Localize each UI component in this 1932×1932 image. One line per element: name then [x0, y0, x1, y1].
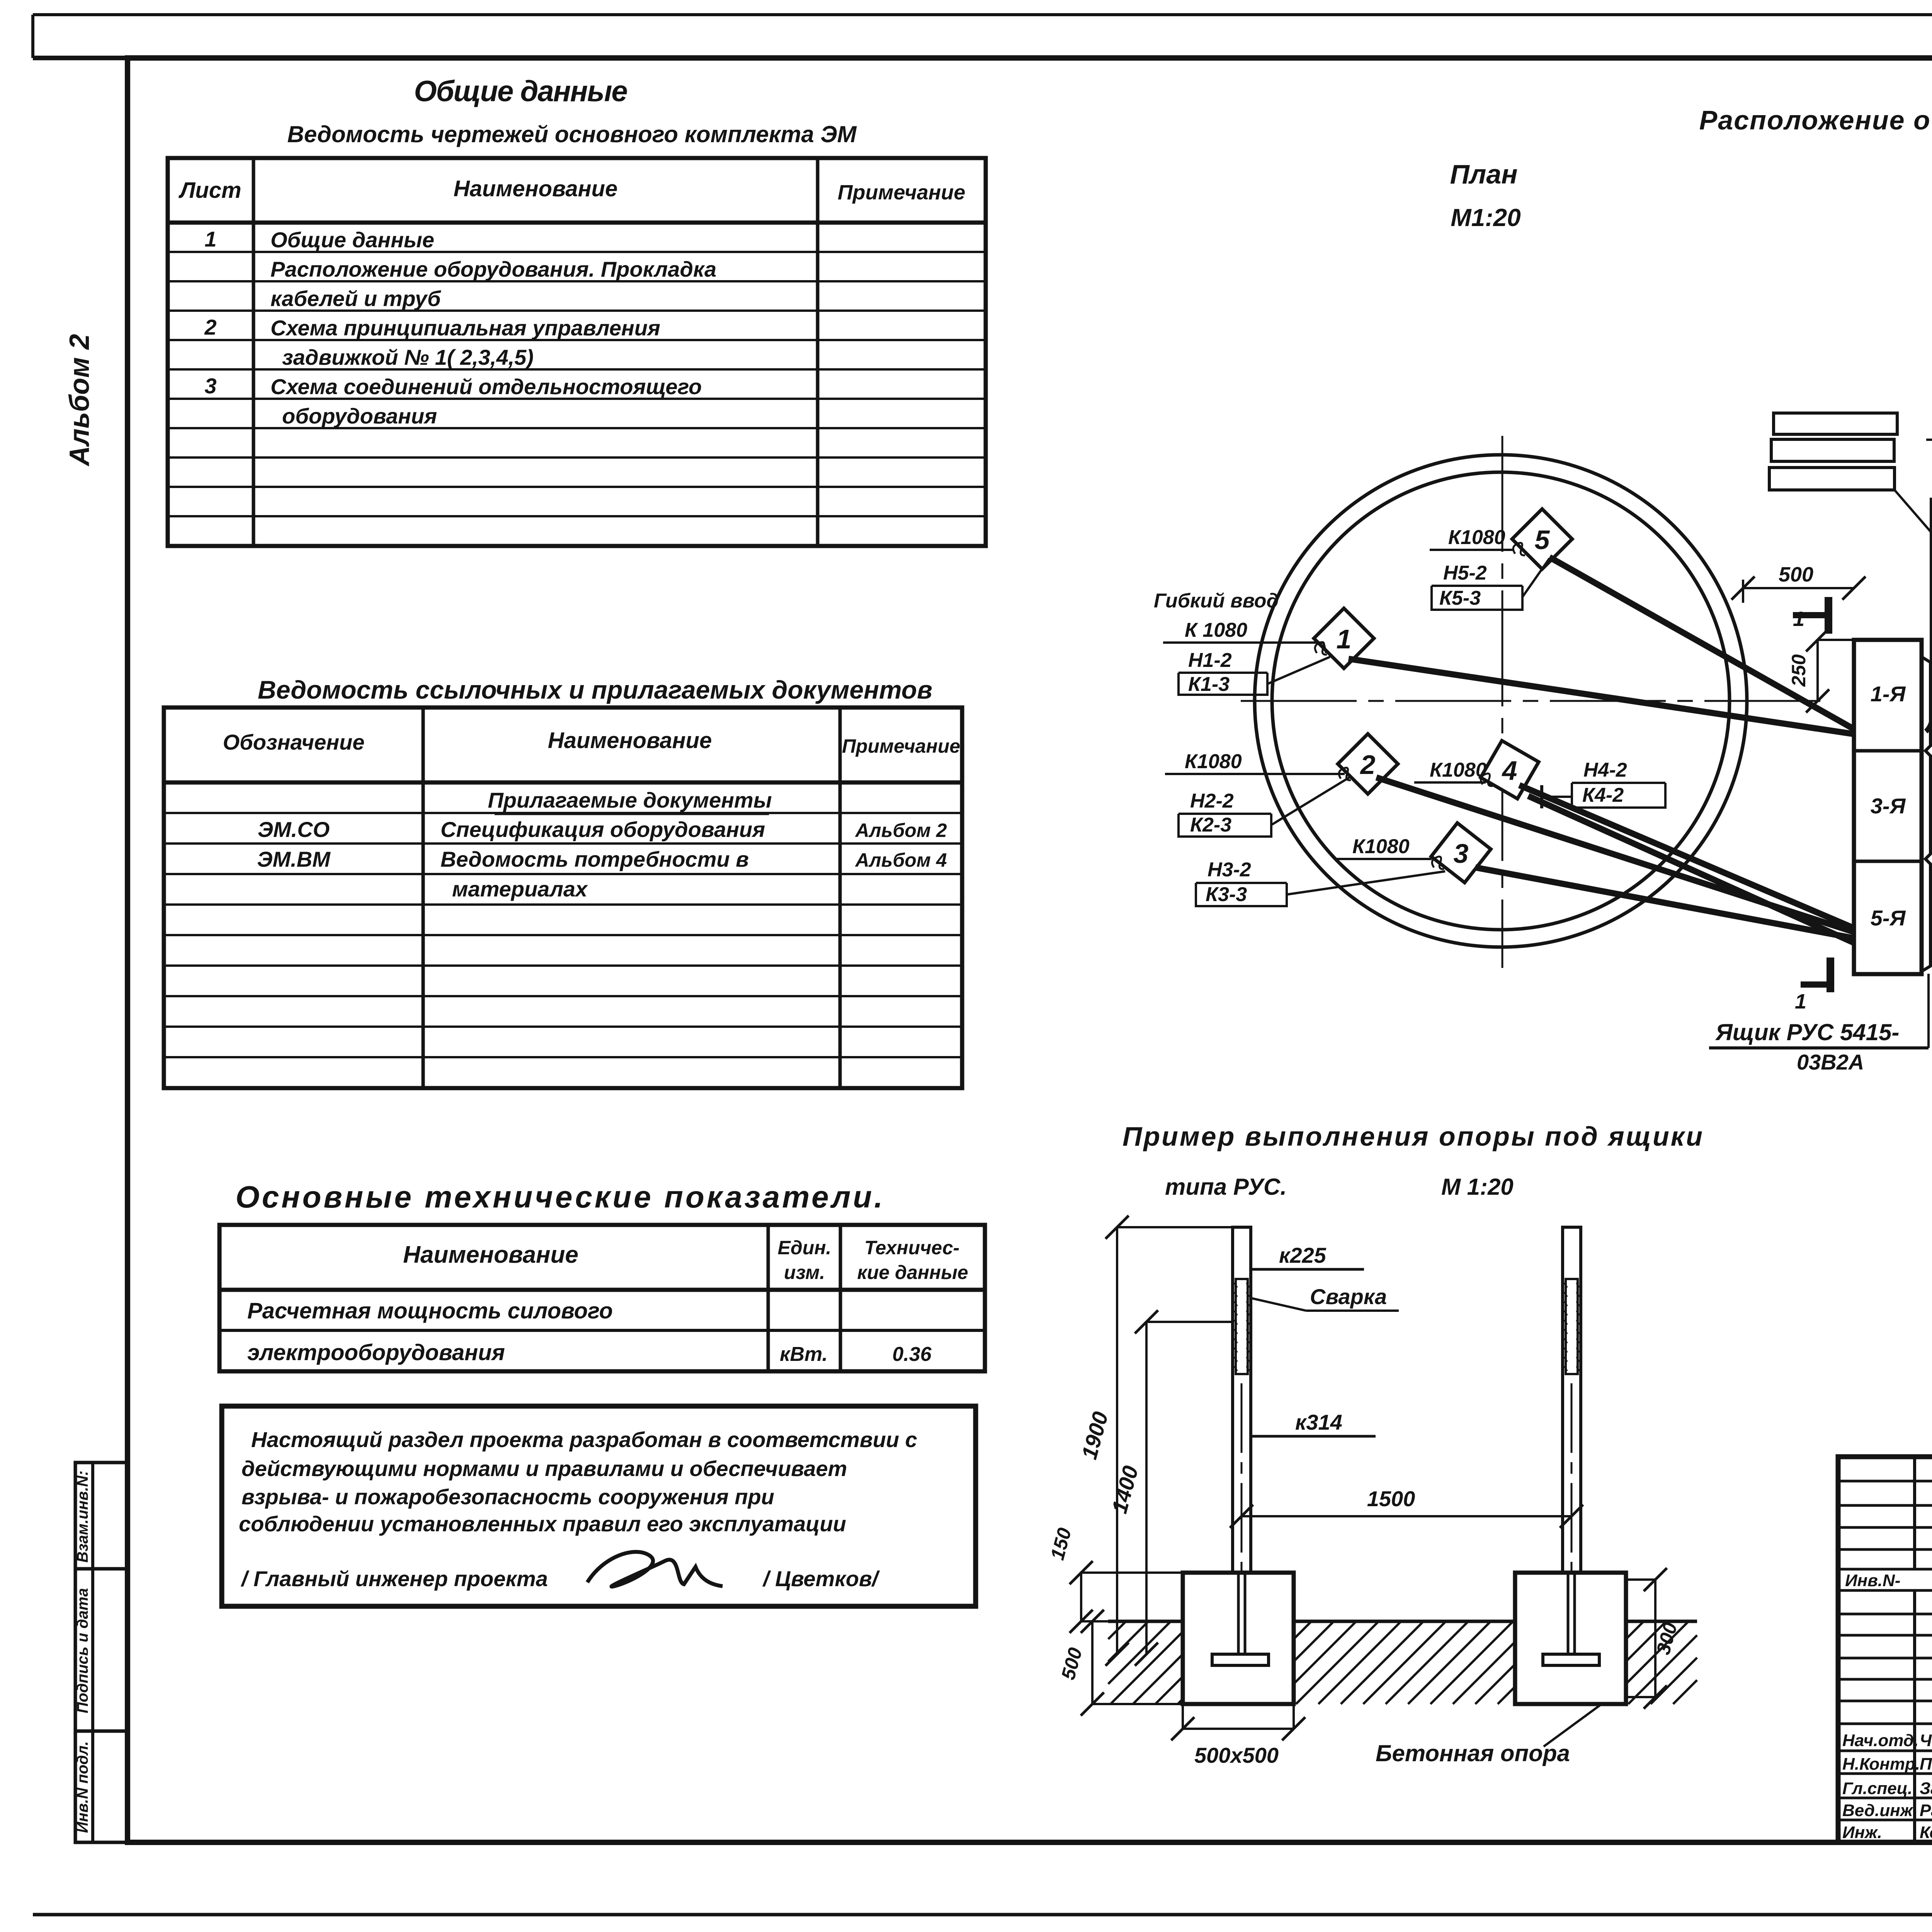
title block left signature table	[1838, 1457, 1932, 1842]
support: left post shaft in foundation	[1237, 1573, 1240, 1654]
svg-text:Схема соединений отдельносто: Схема соединений отдельностоящего	[270, 374, 702, 399]
svg-text:/ Цветков/: / Цветков/	[762, 1566, 880, 1591]
svg-text:5: 5	[1535, 525, 1550, 555]
plan section mark 1 top	[1793, 612, 1827, 618]
svg-text:Гл.спец.: Гл.спец.	[1842, 1779, 1912, 1798]
plan: valve marker diamond 3	[1431, 823, 1491, 883]
svg-text:действующими нормами и пр: действующими нормами и правилами и обесп…	[241, 1456, 847, 1481]
svg-text:Н3-2: Н3-2	[1207, 859, 1251, 881]
svg-text:2: 2	[1360, 750, 1376, 780]
plan dimension 500	[1743, 587, 1854, 589]
plan: valve marker diamond 1	[1314, 608, 1374, 668]
svg-text:Сварка: Сварка	[1310, 1284, 1387, 1309]
table 3: main technical data	[219, 1225, 985, 1371]
svg-text:Наименование: Наименование	[454, 176, 617, 201]
bottom-left margin boxes (Vzam.inv.N / Podpis i data / Inv.N podl.)	[74, 1463, 128, 1842]
plan: cable from diamond 4 to box 5-Ya	[1519, 785, 1854, 928]
support: right footing plate	[1543, 1654, 1599, 1665]
plan: cable from diamond 4 lower to box 5-Ya	[1528, 796, 1854, 943]
svg-text:/ Главный инженер проекта: / Главный инженер проекта	[240, 1566, 548, 1591]
svg-text:М1:20: М1:20	[1451, 204, 1520, 231]
table 2: referenced documents register	[164, 707, 962, 1088]
svg-text:1: 1	[1793, 607, 1804, 631]
svg-text:Инв.N-: Инв.N-	[1845, 1571, 1900, 1590]
svg-text:1: 1	[1795, 990, 1806, 1013]
svg-text:1: 1	[204, 227, 216, 251]
svg-text:К 1080: К 1080	[1185, 619, 1247, 641]
svg-text:Вед.инж.: Вед.инж.	[1842, 1801, 1917, 1820]
svg-text:3: 3	[204, 374, 216, 398]
svg-text:Н4-2: Н4-2	[1583, 759, 1627, 781]
plan: cable from diamond 3 to box 5-Ya	[1475, 867, 1854, 938]
plan: valve marker diamond 2	[1338, 734, 1398, 794]
svg-text:Един.: Един.	[778, 1237, 832, 1259]
support: dimension 1500 between posts	[1242, 1515, 1571, 1517]
support: right post shaft in foundation	[1567, 1573, 1570, 1654]
support: left post column K225	[1233, 1227, 1251, 1573]
svg-text:к314: к314	[1295, 1410, 1342, 1434]
svg-text:К3-3: К3-3	[1206, 883, 1247, 906]
plan: sand trap outer circle	[1255, 455, 1747, 947]
svg-text:Инв.N подл.: Инв.N подл.	[74, 1741, 91, 1833]
svg-text:задвижкой № 1( 2,3,4,5): задвижкой № 1( 2,3,4,5)	[282, 345, 534, 369]
plan: cable entry squiggle at diamond 3	[1432, 857, 1444, 869]
plan: valve marker diamond 4	[1481, 741, 1539, 799]
svg-text:кабелей и труб: кабелей и труб	[270, 286, 441, 311]
page top-left corner tick	[31, 15, 34, 58]
support: dimension 1400	[1145, 1322, 1148, 1654]
svg-text:Чижиков: Чижиков	[1920, 1731, 1932, 1750]
support: left footing plate	[1212, 1654, 1269, 1665]
support: dimension 500 lower left	[1091, 1621, 1094, 1704]
svg-text:Ящик РУС 5415-: Ящик РУС 5415-	[1715, 1019, 1899, 1045]
svg-text:типа РУС.: типа РУС.	[1165, 1174, 1287, 1200]
plan: cable from diamond 2 to box 5-Ya	[1376, 777, 1854, 932]
note box with project statement	[222, 1406, 976, 1606]
svg-text:ЭМ.ВМ: ЭМ.ВМ	[257, 847, 331, 871]
svg-text:материалах: материалах	[452, 877, 588, 901]
svg-text:План: План	[1450, 159, 1517, 189]
plan: cable from diamond 1 to box 1-Ya	[1349, 659, 1855, 734]
page bottom thin border line	[33, 1913, 1932, 1917]
support: left concrete foundation	[1183, 1573, 1294, 1704]
plan: cable riser line right of boxes	[1930, 498, 1932, 711]
svg-text:Н.Контр.: Н.Контр.	[1842, 1755, 1920, 1774]
svg-text:Альбом 2: Альбом 2	[64, 334, 95, 466]
svg-text:Основные технические: Основные технические показатели.	[236, 1180, 885, 1214]
svg-text:Спецификация оборудования: Спецификация оборудования	[440, 817, 765, 842]
support: ground hatching	[1108, 1621, 1697, 1704]
support: right post weld sleeve	[1566, 1279, 1578, 1374]
svg-text:1: 1	[1337, 624, 1352, 654]
svg-text:Лист: Лист	[178, 178, 241, 203]
support: left post inner pipe centerline	[1241, 1383, 1243, 1650]
plan: cable entry squiggle at diamond 1	[1315, 642, 1327, 655]
plan: yashchik RUS boxes 1-Ya 3-Ya 5-Ya	[1854, 640, 1922, 974]
svg-text:3: 3	[1454, 838, 1469, 869]
svg-text:К1080: К1080	[1185, 750, 1242, 773]
svg-text:Позднякова: Позднякова	[1920, 1755, 1932, 1774]
svg-text:Подпись и дата: Подпись и дата	[74, 1588, 91, 1713]
svg-text:Расположение оборудования.: Расположение оборудования. Прокладка каб…	[1699, 105, 1932, 135]
support: ground line	[1108, 1620, 1183, 1623]
svg-text:Взам.инв.N:: Взам.инв.N:	[74, 1471, 91, 1563]
svg-text:К5-3: К5-3	[1439, 587, 1481, 609]
plan: three stacked conduit rectangles	[1774, 413, 1897, 434]
support: right post column	[1563, 1227, 1581, 1573]
svg-text:1500: 1500	[1367, 1486, 1415, 1511]
svg-text:Альбом 4: Альбом 4	[854, 849, 947, 871]
plan: cable from diamond 5 to box 1-Ya	[1549, 557, 1855, 730]
svg-text:03В2А: 03В2А	[1797, 1050, 1864, 1074]
svg-text:взрыва- и пожаробезопасност: взрыва- и пожаробезопасность сооружения …	[241, 1485, 774, 1509]
svg-text:Обозначение: Обозначение	[223, 730, 365, 754]
svg-text:500х500: 500х500	[1194, 1743, 1279, 1767]
support: right concrete foundation	[1515, 1573, 1626, 1704]
support: dimension 1900	[1116, 1227, 1118, 1654]
svg-text:Прилагаемые документы: Прилагаемые документы	[488, 788, 772, 812]
svg-text:Общие данные: Общие данные	[414, 75, 627, 108]
svg-text:Наименование: Наименование	[548, 728, 712, 753]
svg-text:Техничес-: Техничес-	[864, 1237, 959, 1259]
svg-text:2: 2	[204, 315, 216, 339]
plan: sand trap inner circle	[1272, 472, 1730, 930]
svg-text:М 1:20: М 1:20	[1441, 1174, 1514, 1200]
support: left post weld sleeve	[1236, 1279, 1248, 1374]
plan dimension 250	[1816, 640, 1819, 701]
plan: cable entry squiggle at diamond 4	[1481, 774, 1493, 786]
support: dimension 300 right	[1654, 1580, 1656, 1697]
support: dimension 150	[1080, 1573, 1082, 1621]
svg-text:К4-2: К4-2	[1582, 784, 1624, 806]
svg-text:Расчетная мощность силовог: Расчетная мощность силового	[247, 1298, 613, 1323]
plan: valve marker diamond 5	[1512, 509, 1572, 569]
svg-text:5-Я: 5-Я	[1871, 906, 1906, 930]
svg-text:К2-3: К2-3	[1190, 814, 1231, 836]
svg-text:500: 500	[1779, 563, 1813, 586]
svg-text:Схема принципиальная управл: Схема принципиальная управления	[270, 316, 660, 340]
svg-text:Н1-2: Н1-2	[1188, 649, 1232, 672]
svg-text:Нач.отд.: Нач.отд.	[1842, 1731, 1918, 1750]
svg-text:ЭМ.СО: ЭМ.СО	[258, 817, 330, 842]
svg-text:Ведомость чертежей основног: Ведомость чертежей основного комплекта Э…	[287, 121, 857, 147]
table 1: sheet register (Vedomost chertezhei)	[168, 158, 986, 546]
svg-text:3-Я: 3-Я	[1871, 794, 1906, 818]
svg-text:Н2-2: Н2-2	[1190, 790, 1234, 812]
plan: yashchik RUS box column outline shadow	[1922, 657, 1930, 971]
support: right post inner pipe centerline	[1571, 1383, 1573, 1650]
plan: cable entry squiggle at diamond 2	[1339, 768, 1351, 780]
svg-text:К1-3: К1-3	[1188, 673, 1230, 696]
svg-text:изм.: изм.	[784, 1262, 825, 1283]
svg-text:250: 250	[1788, 654, 1810, 687]
svg-text:К1080: К1080	[1352, 835, 1410, 858]
svg-text:Альбом 2: Альбом 2	[854, 820, 947, 841]
page top thin border line	[33, 13, 1932, 16]
plan: tank centerline vertical	[1502, 436, 1503, 968]
plan: tank centerline horizontal	[1241, 700, 1832, 702]
title block outer frame	[1838, 1457, 1932, 1842]
svg-text:Общие данные: Общие данные	[270, 228, 434, 252]
svg-text:Радюшкин: Радюшкин	[1920, 1801, 1932, 1820]
svg-text:к225: к225	[1279, 1243, 1327, 1267]
svg-text:0.36: 0.36	[892, 1343, 932, 1366]
svg-text:Расположение оборудования.: Расположение оборудования. Прокладка	[270, 257, 716, 281]
plan section mark 1 bottom	[1801, 981, 1830, 988]
svg-text:Ведомость потребности в: Ведомость потребности в	[440, 847, 749, 871]
svg-text:Примечание: Примечание	[842, 735, 960, 757]
svg-text:К1080: К1080	[1430, 759, 1487, 781]
svg-text:кие данные: кие данные	[857, 1262, 968, 1283]
svg-text:Гибкий ввод: Гибкий ввод	[1154, 590, 1279, 612]
svg-text:К1080: К1080	[1448, 526, 1505, 549]
svg-text:электрооборудования: электрооборудования	[247, 1340, 505, 1365]
svg-text:Инж.: Инж.	[1842, 1823, 1882, 1842]
support: dimension 500x500	[1183, 1728, 1294, 1730]
svg-text:соблюдении установленных: соблюдении установленных правил его эксп…	[239, 1512, 846, 1536]
svg-text:1-Я: 1-Я	[1871, 682, 1906, 706]
svg-text:кВт.: кВт.	[780, 1343, 828, 1366]
svg-text:4: 4	[1502, 755, 1517, 786]
svg-text:оборудования: оборудования	[282, 404, 437, 428]
plan: leader from conduits to riser	[1895, 490, 1932, 533]
svg-text:Пример выполнения опоры под: Пример выполнения опоры под ящики	[1122, 1121, 1704, 1151]
chief engineer signature	[587, 1552, 723, 1587]
svg-text:Ведомость ссылочных и прила: Ведомость ссылочных и прилагаемых докуме…	[258, 675, 932, 704]
svg-text:Бетонная опора: Бетонная опора	[1376, 1740, 1570, 1766]
svg-text:Козлов: Козлов	[1920, 1823, 1932, 1842]
svg-text:Н5-2: Н5-2	[1443, 562, 1487, 584]
svg-text:Зарецкая: Зарецкая	[1920, 1779, 1932, 1798]
svg-text:Настоящий раздел проекта ра: Настоящий раздел проекта разработан в со…	[251, 1427, 917, 1452]
svg-text:Примечание: Примечание	[838, 181, 966, 204]
plan: cable entry squiggle at diamond 5	[1513, 543, 1525, 555]
svg-text:Наименование: Наименование	[403, 1242, 578, 1268]
